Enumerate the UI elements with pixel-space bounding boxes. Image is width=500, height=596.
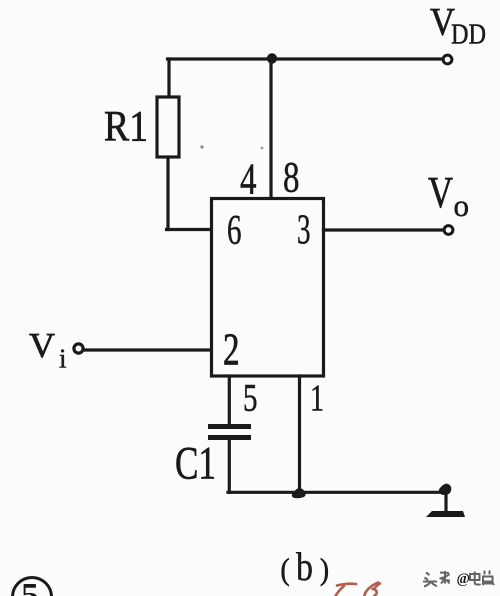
wire: R1 top to top rail (167, 59, 170, 97)
svg-text:(: ( (281, 552, 290, 587)
svg-text:b: b (296, 544, 313, 589)
junction dot at ground stub (439, 484, 452, 496)
svg-text:8: 8 (283, 155, 300, 202)
red handwriting (336, 583, 381, 596)
svg-text:6: 6 (227, 208, 242, 254)
svg-text:2: 2 (223, 325, 240, 375)
op-amp U1 (timer IC box) (212, 199, 324, 377)
svg-text:): ) (320, 552, 329, 587)
svg-text:V: V (428, 168, 453, 217)
svg-text:3: 3 (297, 208, 311, 254)
wire: Vi terminal to pin 2 (85, 348, 211, 351)
wire: bottom ground rail (228, 491, 444, 494)
svg-text:V: V (29, 326, 55, 365)
svg-text:DD: DD (451, 20, 486, 51)
svg-text:5: 5 (243, 377, 258, 420)
svg-text:4: 4 (240, 155, 257, 204)
speckle dots (200, 145, 203, 148)
ground (426, 511, 465, 517)
terminal Vo (444, 226, 453, 235)
wire: top VDD rail (168, 57, 443, 60)
wire: horizontal into pin 6 (167, 228, 212, 231)
resistor R1 (157, 97, 179, 157)
wire: ground stub (444, 491, 447, 511)
wire: pin 3 output to Vo terminal (324, 228, 443, 231)
terminal Vi (74, 344, 83, 353)
wire: R1 bottom down (166, 157, 169, 230)
svg-text:5: 5 (21, 577, 39, 596)
wire: junction down to pins 4/8 (269, 59, 272, 198)
label (b) (281, 544, 330, 589)
circled figure number 5 (13, 577, 52, 596)
svg-text:1: 1 (310, 378, 324, 420)
wire: pin 1 down to ground rail (298, 376, 301, 492)
junction dot at bottom rail (292, 488, 306, 498)
terminal VDD (443, 55, 452, 64)
svg-text:R1: R1 (104, 104, 148, 151)
watermark 头条@电巢 (423, 571, 494, 587)
wire: C1 bottom to ground rail (228, 440, 231, 492)
wire: pin 5 down to C1 (228, 376, 231, 424)
svg-text:C1: C1 (175, 438, 216, 490)
capacitor C1 (208, 424, 251, 440)
svg-text:i: i (59, 344, 67, 374)
svg-text:@: @ (457, 571, 471, 587)
junction dot at VDD rail (267, 53, 277, 63)
svg-text:o: o (454, 188, 470, 223)
